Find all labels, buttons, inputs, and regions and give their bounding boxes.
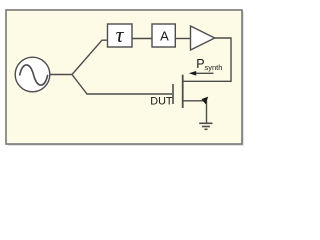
svg-text:A: A [160, 28, 169, 43]
svg-text:τ: τ [116, 22, 125, 47]
svg-text:DUT: DUT [150, 96, 173, 108]
svg-text:P: P [196, 57, 204, 71]
svg-text:synth: synth [205, 63, 223, 72]
